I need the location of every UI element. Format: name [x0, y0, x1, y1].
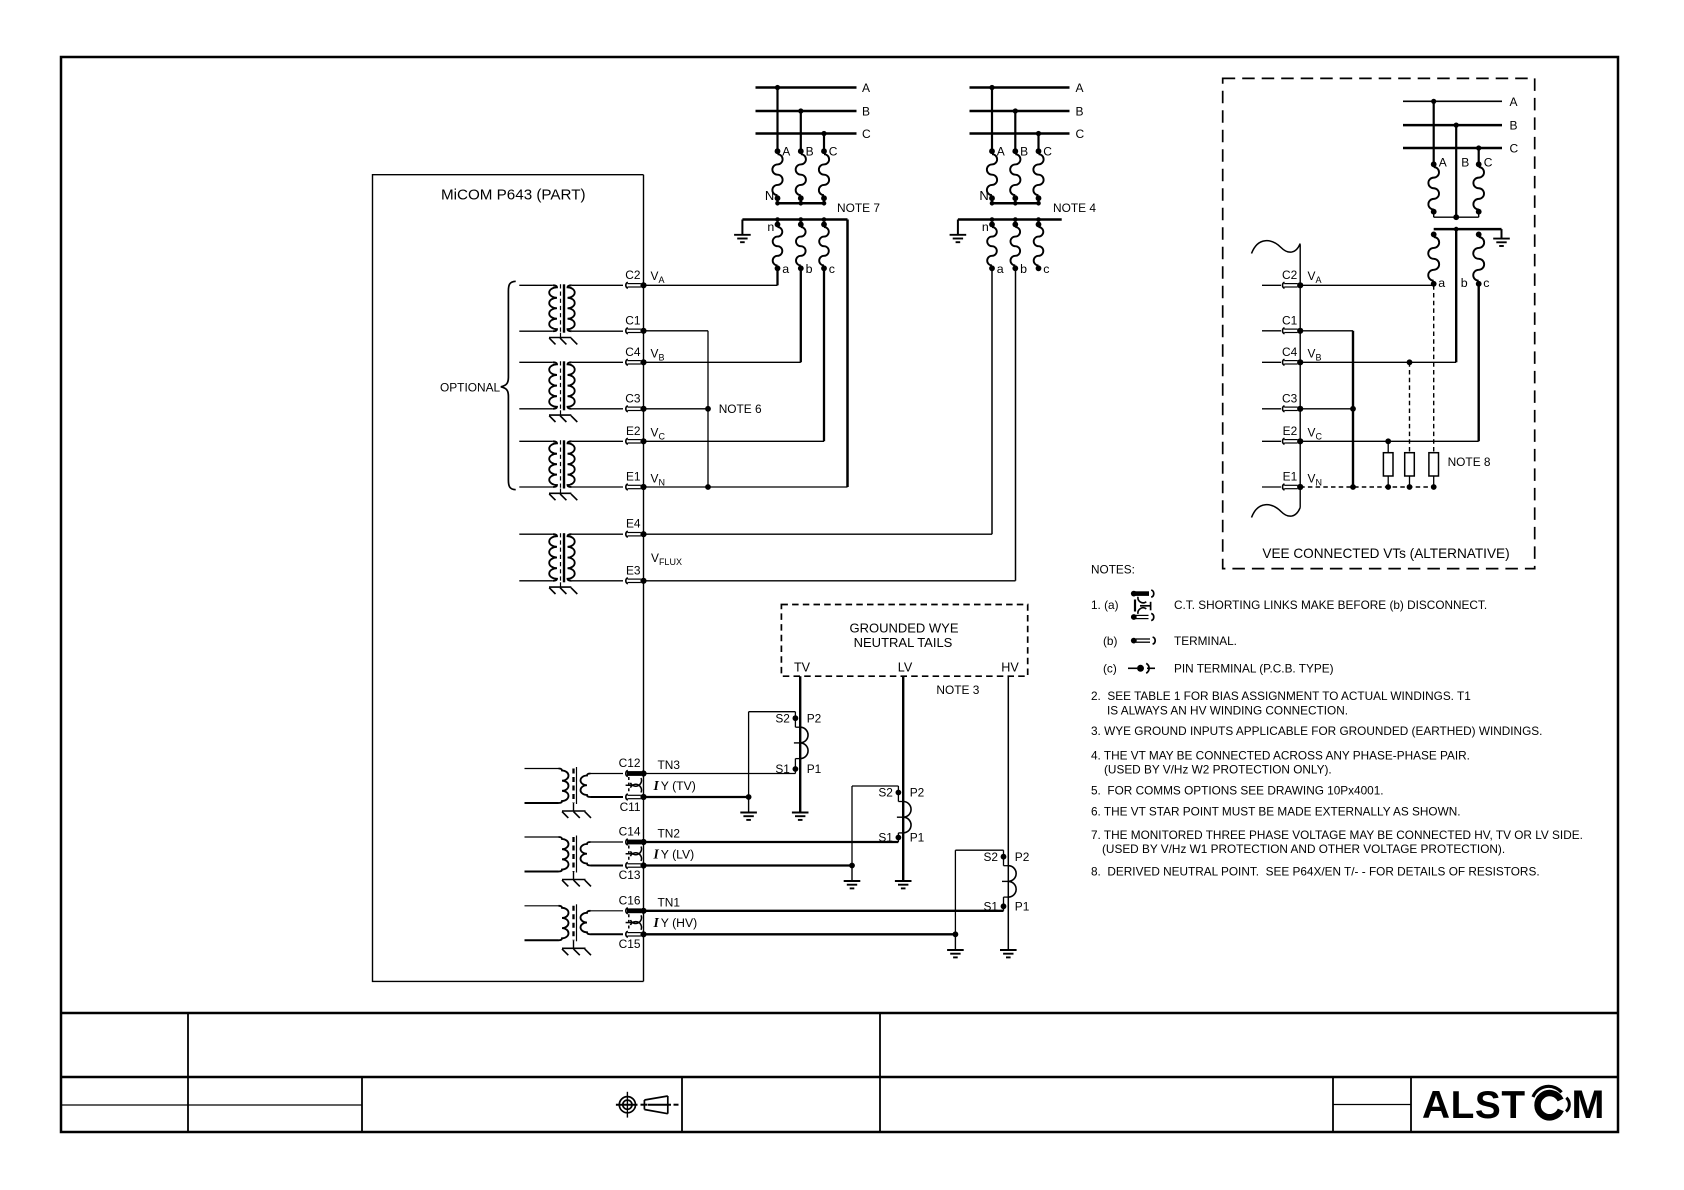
wire tap C (NOTE 4): [1037, 134, 1039, 152]
svg-text:TN3: TN3: [658, 758, 681, 772]
wire b dashed drop (VEE): [1409, 362, 1411, 452]
wire VN row dashed (VEE): [1300, 486, 1434, 488]
svg-text:TV: TV: [794, 661, 811, 675]
wire TV neutral tail: [799, 676, 801, 812]
transformer T4 (I Y TV input): [525, 768, 559, 770]
wire bank2 a to E4: [991, 268, 993, 534]
ground (VEE secondary): [1501, 229, 1503, 239]
icon pin terminal: [1128, 667, 1137, 669]
CT TV S1 lead: [794, 759, 796, 774]
svg-text:C4: C4: [625, 345, 641, 359]
svg-text:a: a: [997, 262, 1004, 276]
svg-text:C14: C14: [619, 825, 641, 839]
wire n bus to VN (star point): [846, 220, 849, 488]
CT HV secondary winding: [1008, 866, 1016, 897]
svg-text:IS ALWAYS AN HV WINDING CONNEC: IS ALWAYS AN HV WINDING CONNECTION.: [1107, 703, 1348, 717]
title block mid rule: [61, 1076, 1618, 1079]
svg-text:C1: C1: [625, 313, 641, 327]
bus A (NOTE 4): [970, 86, 1070, 89]
title block cell divider 2: [879, 1013, 881, 1077]
svg-text:C2: C2: [625, 268, 641, 282]
primary winding B (NOTE 4): [1012, 148, 1018, 154]
wire bank2 b to E3: [1015, 268, 1017, 581]
wire secondary b (VEE): [1455, 229, 1457, 362]
terminal E4: [626, 531, 628, 537]
primary winding B (NOTE 7): [798, 148, 804, 154]
svg-text:IY (LV): IY (LV): [653, 846, 695, 861]
wire C1 to NOTE6 rail: [644, 330, 709, 332]
svg-text:ALST: ALST: [1422, 1084, 1526, 1127]
svg-text:M: M: [1572, 1083, 1605, 1127]
svg-text:E1: E1: [626, 470, 641, 484]
MiCOM P643 relay boundary box: [373, 175, 644, 982]
terminal C11: [626, 794, 628, 800]
svg-text:C: C: [1076, 127, 1085, 141]
transformer T2 (VB input): [519, 361, 553, 363]
transformer T1 (VA-VN input): [519, 284, 553, 286]
svg-text:c: c: [1483, 276, 1489, 290]
svg-text:n: n: [982, 220, 989, 234]
wire ground lead (LV loop): [851, 866, 853, 882]
break mark bottom (VEE): [1252, 505, 1301, 518]
svg-text:NOTES:: NOTES:: [1091, 562, 1135, 576]
wire VC row (VEE): [1300, 440, 1479, 442]
svg-text:C: C: [1043, 145, 1052, 159]
svg-text:8. DERIVED NEUTRAL POINT. SE: 8. DERIVED NEUTRAL POINT. SEE P64X/EN T/…: [1091, 865, 1540, 879]
svg-text:C13: C13: [619, 868, 641, 882]
primary winding A (NOTE 4): [989, 148, 995, 154]
svg-text:A: A: [1510, 95, 1518, 109]
wire C3 to NOTE6 rail: [644, 408, 709, 410]
secondary winding b (NOTE 4): [1012, 222, 1018, 228]
svg-text:NOTE 3: NOTE 3: [936, 683, 979, 697]
svg-text:S2: S2: [775, 711, 790, 725]
svg-text:C2: C2: [1282, 268, 1298, 282]
wire C11 to TV loop: [644, 796, 749, 798]
node LV loop junction: [849, 863, 855, 869]
svg-text:A: A: [1439, 156, 1447, 170]
svg-text:(USED BY V/Hz W1 PROTECTION AN: (USED BY V/Hz W1 PROTECTION AND OTHER VO…: [1102, 842, 1505, 856]
svg-text:4. THE VT MAY BE CONNECTED ACR: 4. THE VT MAY BE CONNECTED ACROSS ANY PH…: [1091, 748, 1470, 762]
terminal E1: [626, 484, 628, 490]
wire C13 to LV loop: [644, 864, 853, 866]
VEE CONNECTED VTs box: [1223, 78, 1535, 568]
svg-text:E3: E3: [626, 563, 641, 577]
bus B (NOTE 7): [756, 110, 857, 113]
svg-text:C: C: [862, 127, 871, 141]
svg-text:E2: E2: [626, 424, 641, 438]
wire TV S2 loop: [749, 711, 796, 713]
primary winding C-B (VEE): [1476, 161, 1482, 167]
svg-text:n: n: [767, 220, 774, 234]
terminal C15: [626, 931, 628, 937]
node secondary bus (VEE): [1434, 228, 1502, 231]
node VN junctions (VEE): [1350, 484, 1356, 490]
svg-text:MiCOM P643 (PART): MiCOM P643 (PART): [441, 187, 586, 204]
transformer T6 (I Y HV input): [525, 905, 559, 907]
title block lower divider 1: [187, 1077, 189, 1132]
GROUNDED WYE NEUTRAL TAILS box: [781, 605, 1027, 677]
svg-text:C: C: [829, 145, 838, 159]
wire C3 row (VEE): [1300, 408, 1353, 410]
svg-text:E2: E2: [1283, 424, 1298, 438]
wire c to VC (VEE): [1477, 284, 1479, 442]
primary winding A (NOTE 7): [775, 148, 781, 154]
svg-text:(USED BY V/Hz W2 PROTECTION ON: (USED BY V/Hz W2 PROTECTION ONLY).: [1104, 763, 1332, 777]
terminal C13: [626, 862, 628, 868]
wire ground lead (TV loop): [748, 797, 750, 813]
brace for optional VT inputs: [501, 281, 516, 489]
wire c to VC: [823, 268, 825, 441]
secondary winding a (NOTE 4): [989, 222, 995, 228]
CT LV S2 lead: [897, 786, 899, 802]
svg-text:S2: S2: [983, 850, 998, 864]
title block lower divider 2: [361, 1077, 363, 1132]
svg-text:NEUTRAL TAILS: NEUTRAL TAILS: [854, 635, 953, 650]
break mark top (VEE): [1252, 241, 1301, 254]
resistor R1: [1387, 441, 1389, 452]
ground (TV tail): [792, 812, 809, 814]
svg-text:C.T. SHORTING LINKS MAKE BEFOR: C.T. SHORTING LINKS MAKE BEFORE (b) DISC…: [1174, 598, 1487, 612]
svg-text:NOTE 4: NOTE 4: [1053, 201, 1096, 215]
wire MiCOM box right edge / terminal rail: [643, 175, 645, 982]
svg-text:TN1: TN1: [658, 895, 681, 909]
svg-text:LV: LV: [898, 661, 913, 675]
wire tap B (NOTE 7): [800, 111, 802, 151]
svg-text:C3: C3: [1282, 391, 1298, 405]
svg-text:c: c: [829, 262, 835, 276]
title block lower divider 4: [879, 1077, 881, 1132]
svg-text:c: c: [1043, 262, 1049, 276]
wire b to VB: [800, 268, 802, 362]
wire TN3 to TV CT S1: [644, 773, 796, 775]
svg-text:(c): (c): [1103, 662, 1117, 676]
terminal C2 (VEE): [1262, 284, 1281, 286]
secondary winding c (VEE): [1476, 232, 1482, 238]
svg-text:NOTE 6: NOTE 6: [719, 402, 762, 416]
svg-text:P1: P1: [807, 762, 822, 776]
svg-text:a: a: [782, 262, 789, 276]
bus A (NOTE 7): [756, 86, 857, 89]
svg-text:C12: C12: [619, 756, 641, 770]
svg-text:B: B: [862, 105, 870, 119]
CT LV S1 lead: [897, 833, 899, 842]
title block lower divider 3: [681, 1077, 683, 1132]
svg-text:b: b: [806, 262, 813, 276]
secondary winding c (NOTE 7): [821, 222, 827, 228]
bus B (VEE): [1403, 124, 1502, 127]
title block row split left: [61, 1104, 362, 1106]
svg-text:B: B: [1076, 105, 1084, 119]
svg-text:B: B: [1020, 145, 1028, 159]
svg-text:C3: C3: [625, 391, 641, 405]
icon terminal: [1131, 638, 1137, 644]
svg-text:N: N: [765, 188, 774, 203]
wire a to VA: [776, 268, 778, 285]
svg-text:(b): (b): [1103, 634, 1117, 648]
svg-text:GROUNDED WYE: GROUNDED WYE: [849, 621, 958, 636]
svg-text:P2: P2: [1015, 850, 1030, 864]
terminal C1 (VEE): [1262, 330, 1281, 332]
wire TN1 to HV CT S1: [644, 910, 1004, 912]
ground (HV CT loop): [947, 949, 964, 951]
bus C (NOTE 4): [970, 132, 1070, 135]
svg-text:N: N: [979, 188, 988, 203]
svg-text:C1: C1: [1282, 313, 1298, 327]
wire ground lead (HV loop): [954, 934, 956, 950]
svg-text:C: C: [1510, 142, 1519, 156]
terminal C14: [626, 839, 628, 845]
svg-text:C16: C16: [619, 893, 641, 907]
svg-text:VEE CONNECTED VTs (ALTERNATIVE: VEE CONNECTED VTs (ALTERNATIVE): [1262, 546, 1509, 561]
svg-text:A: A: [862, 81, 870, 95]
node TV loop junction: [746, 794, 752, 800]
svg-text:P2: P2: [910, 786, 925, 800]
wire tap A (NOTE 4): [991, 88, 993, 152]
svg-text:b: b: [1461, 276, 1468, 290]
transformer T3 (VC input): [519, 440, 553, 442]
wire VB row (VEE): [1300, 361, 1456, 363]
ground (NOTE 4 secondary): [957, 220, 959, 235]
svg-text:a: a: [1438, 276, 1445, 290]
svg-text:A: A: [782, 145, 790, 159]
ground (NOTE 7 secondary): [741, 220, 743, 235]
svg-text:HV: HV: [1001, 661, 1019, 675]
svg-text:P1: P1: [1015, 900, 1030, 914]
wire relay edge rail (VEE): [1299, 245, 1301, 508]
CT HV S2 lead: [1003, 850, 1005, 866]
CT TV S2 lead: [794, 712, 796, 728]
svg-text:S2: S2: [878, 786, 893, 800]
primary winding A-B (VEE): [1431, 161, 1437, 167]
svg-text:C11: C11: [620, 800, 641, 814]
wire TN2 to LV CT S1: [644, 841, 899, 843]
wire HV S2 loop: [955, 849, 1003, 851]
secondary winding b (NOTE 7): [798, 222, 804, 228]
terminal E2 (VEE): [1262, 440, 1281, 442]
wire vee common to B: [1433, 212, 1435, 218]
svg-text:P1: P1: [910, 831, 925, 845]
terminal C4 (VEE): [1262, 361, 1281, 363]
svg-text:S1: S1: [775, 762, 790, 776]
terminal C16: [626, 908, 628, 914]
wire tap A (NOTE 7): [776, 88, 778, 152]
svg-text:C4: C4: [1282, 345, 1298, 359]
wire tap B (NOTE 4): [1014, 111, 1016, 151]
svg-text:B: B: [1510, 119, 1518, 133]
shorting link C12-C11: [628, 777, 630, 794]
bus A (VEE): [1403, 100, 1502, 102]
svg-text:B: B: [1461, 156, 1469, 170]
secondary winding a (NOTE 7): [775, 222, 781, 228]
ground (LV tail): [895, 880, 912, 882]
secondary winding c (NOTE 4): [1036, 222, 1042, 228]
svg-text:6. THE VT STAR POINT MUST BE M: 6. THE VT STAR POINT MUST BE MADE EXTERN…: [1091, 804, 1461, 818]
terminal C3 (VEE): [1262, 408, 1281, 410]
bus C (VEE): [1403, 147, 1502, 150]
svg-text:b: b: [1020, 262, 1027, 276]
svg-text:5. FOR COMMS OPTIONS SEE DRAW: 5. FOR COMMS OPTIONS SEE DRAWING 10Px400…: [1091, 784, 1384, 798]
CT TV secondary winding: [800, 727, 808, 758]
node n bus (NOTE 4): [958, 218, 1062, 221]
ground (HV tail): [1000, 949, 1017, 951]
svg-text:TN2: TN2: [658, 827, 681, 841]
svg-text:C: C: [1484, 156, 1493, 170]
node NOTE 6 junction: [705, 406, 711, 412]
icon first angle projection: [619, 1097, 635, 1113]
svg-text:P2: P2: [807, 711, 822, 725]
title block row split right: [1333, 1104, 1411, 1106]
wire LV neutral tail: [902, 676, 904, 881]
node n bus (NOTE 7): [742, 218, 847, 221]
node E1 junction: [705, 484, 711, 490]
svg-text:1. (a): 1. (a): [1091, 598, 1119, 612]
wire C15 to HV loop: [644, 933, 956, 935]
svg-text:PIN TERMINAL (P.C.B. TYPE): PIN TERMINAL (P.C.B. TYPE): [1174, 662, 1334, 676]
title block cell divider 1: [187, 1013, 189, 1077]
svg-text:2. SEE TABLE 1 FOR BIAS ASSIG: 2. SEE TABLE 1 FOR BIAS ASSIGNMENT TO AC…: [1091, 689, 1471, 703]
terminal E2: [626, 438, 628, 444]
svg-text:NOTE 8: NOTE 8: [1448, 455, 1491, 469]
transformer T7 (VFLUX input): [519, 533, 553, 535]
svg-text:A: A: [1076, 81, 1084, 95]
terminal E1 (VEE): [1262, 486, 1281, 488]
svg-text:E4: E4: [626, 517, 641, 531]
secondary winding a (VEE): [1431, 232, 1437, 238]
resistor R2: [1405, 453, 1415, 476]
svg-text:OPTIONAL: OPTIONAL: [440, 381, 501, 395]
node HV loop junction: [953, 931, 959, 937]
ground (LV CT loop): [844, 880, 861, 882]
title block lower divider 6: [1410, 1077, 1412, 1132]
wire tap C (NOTE 7): [823, 134, 825, 152]
terminal C3: [626, 406, 628, 412]
resistor R3: [1429, 453, 1439, 476]
wire C1 to derived rail (VEE): [1300, 330, 1353, 332]
wire a dashed drop (VEE): [1433, 285, 1435, 452]
primary winding C (NOTE 7): [821, 148, 827, 154]
CT LV secondary winding: [903, 802, 911, 833]
bus C (NOTE 7): [756, 132, 857, 135]
wire LV S2 loop: [852, 785, 898, 787]
svg-text:E1: E1: [1283, 470, 1298, 484]
svg-text:NOTE 7: NOTE 7: [837, 201, 880, 215]
CT HV S1 lead: [1003, 897, 1005, 911]
wire tap C (VEE): [1478, 148, 1480, 164]
wire HV neutral tail: [1007, 676, 1009, 950]
svg-text:7. THE MONITORED THREE PHASE V: 7. THE MONITORED THREE PHASE VOLTAGE MAY…: [1091, 828, 1583, 842]
terminal C1: [626, 328, 628, 334]
bus B (NOTE 4): [970, 110, 1070, 113]
svg-text:B: B: [806, 145, 814, 159]
node N bus (NOTE 4): [992, 202, 1039, 205]
ground (TV CT loop): [740, 812, 757, 814]
wire tap B (VEE): [1455, 125, 1457, 217]
transformer T5 (I Y LV input): [525, 836, 559, 838]
title block top rule: [61, 1012, 1618, 1015]
terminal E3: [626, 578, 628, 584]
svg-text:3. WYE GROUND INPUTS APPLICABL: 3. WYE GROUND INPUTS APPLICABLE FOR GROU…: [1091, 724, 1542, 738]
wire tap A (VEE): [1433, 101, 1435, 164]
wire VA row (VEE): [1300, 284, 1434, 286]
svg-text:TERMINAL.: TERMINAL.: [1174, 634, 1237, 648]
primary winding C (NOTE 4): [1036, 148, 1042, 154]
terminal C12: [626, 770, 628, 776]
svg-text:A: A: [997, 145, 1005, 159]
title block lower divider 5: [1332, 1077, 1334, 1132]
node N bus (NOTE 7): [778, 202, 825, 205]
terminal C2: [626, 282, 628, 288]
svg-text:C15: C15: [619, 937, 641, 951]
shorting link C14-C13: [628, 846, 630, 863]
shorting link C16-C15: [628, 914, 630, 931]
terminal C4: [626, 359, 628, 365]
icon CT shorting links: [1135, 592, 1149, 596]
